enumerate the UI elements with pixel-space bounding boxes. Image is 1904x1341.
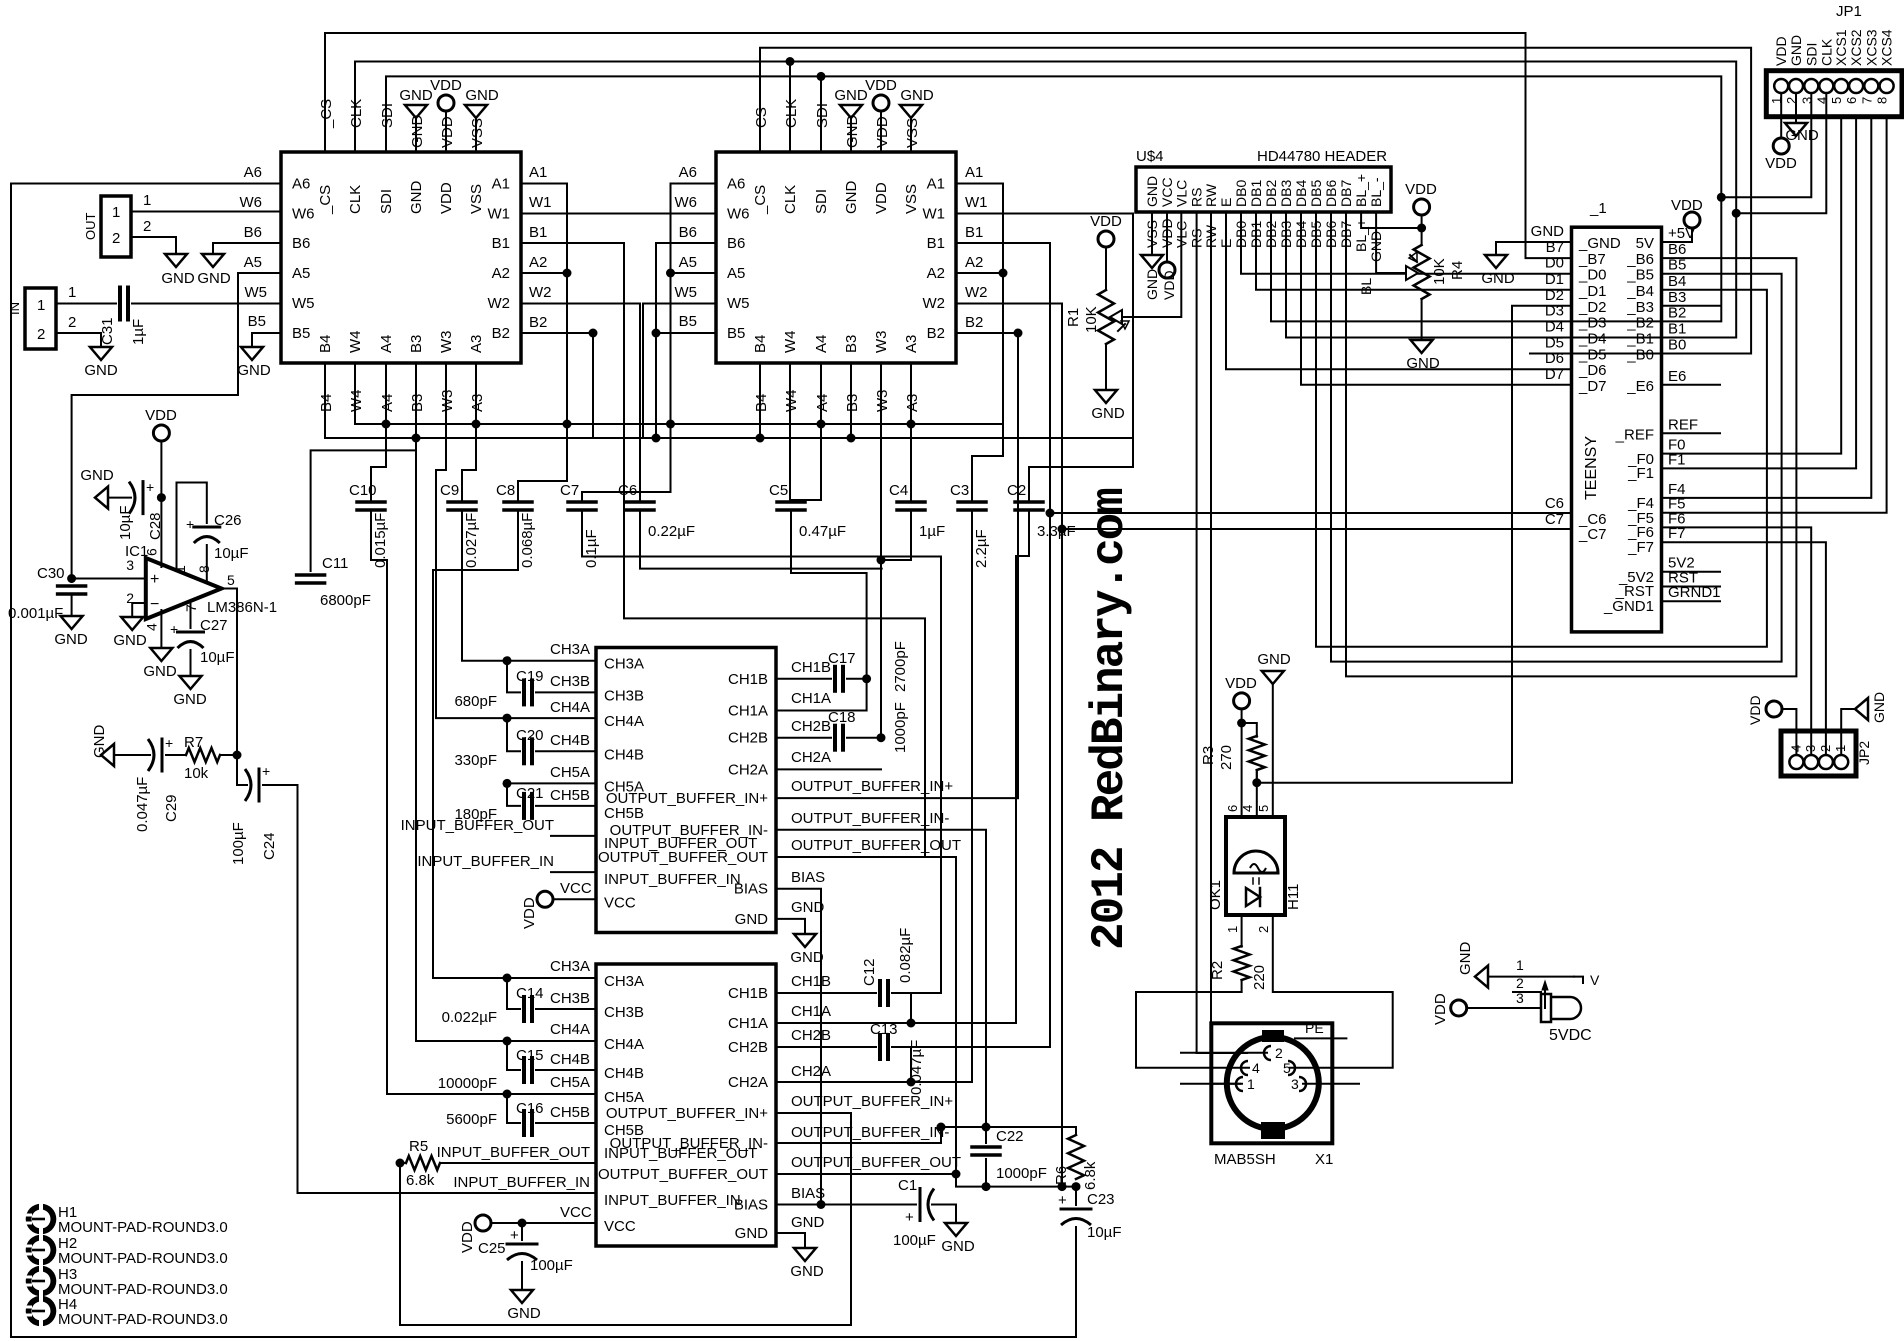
svg-text:C5: C5 [769, 482, 788, 499]
svg-text:C23: C23 [1087, 1191, 1115, 1208]
svg-text:GND: GND [843, 181, 860, 215]
ground for JP2 pin1 [1841, 709, 1854, 755]
svg-text:C4: C4 [889, 482, 908, 499]
svg-text:XCS3: XCS3 [1863, 29, 1879, 66]
wire U$4 RW down to DIN pin1 [1211, 212, 1240, 1084]
junction C17 to CH1A column [862, 674, 871, 683]
filter network block FILTER1 body [596, 648, 776, 933]
svg-text:2.2µF: 2.2µF [973, 529, 990, 568]
svg-text:C15: C15 [516, 1047, 544, 1064]
svg-text:R1: R1 [1065, 308, 1082, 327]
svg-text:CH5B: CH5B [550, 787, 590, 804]
digital potentiometer IC IC-POT2 body [716, 152, 956, 363]
svg-text:CH1B: CH1B [791, 973, 831, 990]
svg-text:1: 1 [1516, 957, 1524, 973]
svg-text:2: 2 [1516, 975, 1524, 991]
svg-text:JP2: JP2 [1856, 741, 1872, 765]
svg-text:C12: C12 [861, 958, 878, 986]
svg-text:C28: C28 [147, 512, 164, 540]
IN connector J-IN body [25, 288, 56, 349]
svg-text:270: 270 [1218, 745, 1235, 770]
svg-text:10µF: 10µF [200, 649, 235, 666]
wire W2 of IC-POT2 down to output buffer rail [957, 304, 1062, 1187]
svg-text:GND: GND [791, 899, 825, 916]
junction C25 tap [518, 1219, 527, 1228]
ground symbol R1 [1095, 390, 1117, 403]
junction A4 bus1 [382, 420, 391, 429]
svg-text:OUTPUT_BUFFER_IN-: OUTPUT_BUFFER_IN- [610, 822, 768, 839]
svg-text:LM386N-1: LM386N-1 [207, 599, 277, 616]
svg-text:10K: 10K [1431, 258, 1448, 285]
wire U$4 E down to TEENSY D6 [1226, 212, 1572, 369]
svg-text:GND: GND [790, 1263, 824, 1280]
mount pad H3 [26, 1266, 57, 1297]
svg-text:2: 2 [1256, 926, 1271, 933]
JP2 pin 4 circle [1789, 755, 1803, 769]
svg-text:BIAS: BIAS [734, 881, 768, 898]
svg-text:DB6: DB6 [1323, 180, 1339, 207]
svg-text:CH1B: CH1B [791, 659, 831, 676]
svg-text:3: 3 [126, 557, 134, 573]
svg-text:W3: W3 [438, 331, 455, 354]
svg-text:W6: W6 [727, 206, 750, 223]
svg-text:0.082µF: 0.082µF [897, 928, 914, 983]
svg-text:GND: GND [84, 362, 118, 379]
capacitor C10 [357, 500, 385, 504]
svg-text:_C7: _C7 [1578, 526, 1607, 543]
svg-text:W5: W5 [292, 295, 315, 312]
wire BIAS of FILTER1 down to BIAS of FILTER2 [776, 889, 821, 1205]
wire B3 of IC-POT1 through bus2 down to CH4A of filter2 [416, 363, 507, 1041]
svg-text:A4: A4 [379, 394, 396, 412]
svg-text:SDI: SDI [814, 103, 831, 128]
svg-text:B4: B4 [317, 335, 334, 353]
svg-text:A1: A1 [492, 176, 510, 193]
svg-text:B6: B6 [244, 224, 262, 241]
capacitor C27 to ground [178, 631, 204, 634]
ground symbol C1 [945, 1223, 967, 1236]
capacitor C9 [448, 500, 476, 504]
wire TEENSY F4 up to JP1 pin7 [1662, 117, 1872, 498]
svg-text:GND: GND [408, 181, 425, 215]
capacitor C12 [878, 981, 882, 1005]
svg-text:B5: B5 [248, 313, 266, 330]
junction R7 output node [233, 751, 242, 760]
OK1 LED symbol [1246, 888, 1260, 906]
capacitor C15 bridging CH4A-CH4B of FILTER2 [507, 1041, 520, 1070]
svg-text:MOUNT-PAD-ROUND3.0: MOUNT-PAD-ROUND3.0 [58, 1281, 228, 1298]
svg-text:A4: A4 [813, 335, 830, 353]
wire op-amp - input to ground [132, 603, 146, 615]
svg-text:+: + [1058, 1192, 1067, 1209]
IC-POT1 _CS stub to bus [325, 33, 1572, 258]
banner text 2012 RedBinary.com rotated [1084, 489, 1136, 950]
resistor R3 [1242, 723, 1257, 737]
wire A6 net: IC-POT1 A6 to left edge and down to bottom rail [11, 184, 1076, 1338]
svg-text:W4: W4 [782, 331, 799, 354]
svg-text:GND: GND [1788, 35, 1804, 66]
X1 circle [1227, 1037, 1319, 1129]
svg-text:100µF: 100µF [893, 1232, 936, 1249]
svg-text:CH3B: CH3B [604, 687, 644, 704]
svg-text:B5: B5 [1668, 257, 1686, 274]
svg-text:INPUT_BUFFER_OUT: INPUT_BUFFER_OUT [401, 817, 554, 834]
svg-text:CH3A: CH3A [604, 973, 644, 990]
wire A3 of IC-POT2 to bus1 end and C4 [910, 363, 912, 502]
svg-text:6.8k: 6.8k [1082, 1161, 1099, 1190]
svg-text:CH4A: CH4A [550, 1021, 590, 1038]
svg-text:+: + [165, 735, 173, 751]
svg-text:R2: R2 [1209, 961, 1226, 980]
wire IN pin2 to ground [56, 333, 101, 345]
svg-text:B4: B4 [753, 394, 770, 412]
svg-text:CH1B: CH1B [728, 671, 768, 688]
FILTER2 CH4A junction and stub [507, 1040, 596, 1042]
5VDC barrel jack symbol [1541, 994, 1551, 1022]
ground symbol C29 left rotated [101, 744, 114, 766]
svg-text:INPUT_BUFFER_OUT: INPUT_BUFFER_OUT [437, 1144, 590, 1161]
VDD symbol for R3 [1234, 693, 1250, 709]
svg-text:GND: GND [1457, 942, 1474, 976]
svg-text:R5: R5 [409, 1138, 428, 1155]
wire U$4 VLC to R1 wiper [1122, 212, 1181, 317]
potentiometer R4 [1414, 199, 1430, 215]
wire C8 to CH3A of filter2 [433, 510, 518, 978]
svg-text:CH2B: CH2B [791, 1027, 831, 1044]
junction C18 to CH2A column [877, 733, 886, 742]
svg-text:−: − [150, 596, 159, 613]
svg-text:VDD: VDD [145, 407, 177, 424]
FILTER1 CH5A junction and stub [507, 782, 596, 784]
FILTER1 CH4A junction and stub [507, 717, 596, 719]
svg-text:_D0: _D0 [1578, 267, 1607, 284]
svg-text:6: 6 [1225, 805, 1240, 812]
svg-text:VDD: VDD [430, 77, 462, 94]
svg-text:CH5A: CH5A [604, 1089, 644, 1106]
capacitor C31 [118, 288, 122, 320]
ground symbol C25 [511, 1290, 533, 1303]
svg-text:C8: C8 [496, 482, 515, 499]
svg-text:REF: REF [1668, 416, 1698, 433]
ground symbol at IC-POT2 VSS pin [900, 105, 922, 118]
svg-text:A2: A2 [927, 265, 945, 282]
svg-text:A3: A3 [904, 394, 921, 412]
svg-text:1: 1 [37, 297, 45, 314]
mount pad H4 [26, 1296, 57, 1327]
JP1 pin 4 circle [1819, 79, 1833, 93]
svg-text:5: 5 [227, 572, 235, 588]
svg-text:A4: A4 [378, 335, 395, 353]
svg-text:_F7: _F7 [1627, 539, 1654, 556]
junction B2 IC-POT2 [1014, 329, 1023, 338]
svg-text:CH2B: CH2B [728, 730, 768, 747]
wire C5 down to C17 junction / CH1A of filter1 [776, 510, 867, 711]
wire A1 of IC-POT2 [957, 184, 1003, 425]
wire VDD down to OK1 pin6 [1241, 709, 1243, 817]
capacitor C11 [297, 573, 325, 577]
svg-text:GND: GND [1091, 405, 1125, 422]
svg-text:0.22µF: 0.22µF [648, 523, 695, 540]
resistor R2 [1234, 946, 1250, 980]
svg-text:GND: GND [735, 911, 769, 928]
svg-text:_F1: _F1 [1627, 465, 1654, 482]
wire R5 node down to bottom rail [400, 1113, 851, 1325]
wire CH1B of FILTER2 through C12 from D2 feed [776, 992, 876, 994]
svg-text:CH3A: CH3A [604, 656, 644, 673]
svg-text:GND: GND [507, 1305, 541, 1322]
svg-text:W1: W1 [965, 194, 988, 211]
svg-text:A3: A3 [469, 394, 486, 412]
svg-text:C11: C11 [322, 555, 348, 572]
svg-text:A6: A6 [292, 176, 310, 193]
IC-POT2 GND pin stub [850, 118, 852, 152]
svg-text:1000pF: 1000pF [996, 1165, 1047, 1182]
VDD symbol for op-amp IC1 [153, 425, 169, 441]
wire JP1 pin2 to ground [1795, 93, 1797, 121]
svg-text:CH2A: CH2A [791, 749, 831, 766]
svg-text:XCS1: XCS1 [1833, 29, 1849, 66]
ground symbol U$4 GND [1141, 255, 1163, 268]
OK1 photodetector symbol [1234, 851, 1278, 873]
svg-text:MAB5SH: MAB5SH [1214, 1151, 1276, 1168]
ground symbol for 5VDC pin1 rotated [1475, 966, 1488, 988]
wire A4 of IC-POT1 to bus1 and C10 [371, 363, 386, 502]
svg-text:+5V: +5V [1668, 225, 1695, 242]
ground symbol at IC-POT1 GND pin [405, 105, 427, 118]
svg-text:VSS: VSS [468, 184, 485, 214]
svg-text:D6: D6 [1545, 350, 1564, 367]
VDD symbol feeding FILTER2 VCC [475, 1215, 491, 1231]
svg-text:10µF: 10µF [117, 506, 134, 541]
ground symbol FILTER2 [794, 1248, 816, 1261]
IC-POT1 VDD pin stub [445, 111, 447, 152]
potentiometer R1 [1098, 231, 1114, 247]
mount pad H2 [26, 1235, 57, 1266]
wire CH2B of FILTER1 through C18 [776, 737, 831, 739]
wire A5: IC-POT1 A5 down-left to op-amp + input node [72, 273, 281, 579]
svg-text:VDD: VDD [459, 1221, 476, 1253]
wire W4 of IC-POT1 to bus1 [354, 363, 356, 424]
svg-text:A3: A3 [903, 335, 920, 353]
wire OUTPUT_BUFFER_OUT of FILTER2 to bottom rail [776, 1174, 1076, 1187]
svg-text:330pF: 330pF [454, 752, 497, 769]
svg-text:B4: B4 [1668, 273, 1686, 290]
svg-text:+: + [262, 763, 270, 779]
wire B5: IC-POT1 B5 to ground [252, 333, 281, 345]
svg-text:C19: C19 [516, 668, 544, 685]
svg-text:CH5A: CH5A [550, 764, 590, 781]
svg-text:GND: GND [790, 949, 824, 966]
svg-text:_E6: _E6 [1626, 378, 1654, 395]
svg-text:VDD: VDD [1432, 993, 1449, 1025]
capacitor C26 between pins 1 and 8 [177, 483, 207, 571]
wire GND of FILTER2 to ground [776, 1233, 805, 1246]
svg-text:CH1A: CH1A [728, 1015, 768, 1032]
ground symbol op-amp pin4 [150, 648, 172, 661]
svg-text:DB2: DB2 [1263, 180, 1279, 207]
svg-text:CH4B: CH4B [604, 1065, 644, 1082]
wire TEENSY 5V to VDD symbol [1662, 228, 1692, 242]
svg-text:OUTPUT_BUFFER_IN-: OUTPUT_BUFFER_IN- [791, 810, 949, 827]
wire TEENSY F1 up to JP1 pin6 [1662, 117, 1856, 469]
ground symbol TEENSY GND [1485, 255, 1507, 268]
svg-text:A5: A5 [679, 254, 697, 271]
FILTER2 CH5A junction and stub [507, 1093, 596, 1095]
svg-text:3: 3 [1516, 990, 1524, 1006]
svg-text:IN: IN [7, 302, 22, 315]
svg-text:VCC: VCC [560, 1204, 592, 1221]
wire OK1 pin1 to R2 [1241, 915, 1243, 947]
svg-text:0.001µF: 0.001µF [8, 605, 63, 622]
VDD symbol feeding JP2 pin4 [1766, 701, 1782, 717]
junction A3 bus1 [472, 420, 481, 429]
wire A4 of IC-POT2 to bus1 and C5 elbow [791, 363, 821, 500]
svg-text:VDD: VDD [438, 182, 455, 214]
R4 wiper arrow [1406, 266, 1418, 280]
svg-text:B7: B7 [1546, 239, 1564, 256]
svg-text:+: + [905, 1209, 914, 1226]
svg-text:1000pF: 1000pF [892, 702, 909, 753]
svg-text:8: 8 [1875, 97, 1890, 104]
svg-text:CH1A: CH1A [728, 703, 768, 720]
staircase from bus1 to C8 [518, 424, 567, 502]
wire TEENSY GND to ground [1496, 242, 1572, 253]
svg-text:C29: C29 [163, 794, 180, 822]
DIN connector X1 body MAB5SH [1211, 1023, 1332, 1143]
svg-text:GND: GND [399, 87, 433, 104]
wire JP1 pin4 to CLK net [1736, 93, 1826, 213]
svg-text:CH2A: CH2A [791, 1063, 831, 1080]
svg-text:+: + [146, 479, 154, 495]
wire C2 down to CH1A of filter2 [911, 510, 1029, 1023]
svg-text:6: 6 [1844, 97, 1859, 104]
wire TEENSY F5 up to JP1 pin8 [1662, 117, 1887, 513]
svg-text:C20: C20 [516, 727, 544, 744]
svg-text:CH4A: CH4A [550, 699, 590, 716]
JP1 pin 3 circle [1804, 79, 1818, 93]
svg-text:_D2: _D2 [1578, 299, 1607, 316]
svg-text:GND: GND [844, 115, 861, 149]
svg-text:JP1: JP1 [1836, 3, 1862, 20]
svg-text:A5: A5 [727, 265, 745, 282]
wire B1 of IC-POT2 down to CH2B of filter2 [957, 243, 1050, 1047]
svg-text:PE: PE [1305, 1020, 1324, 1036]
svg-text:0.022µF: 0.022µF [442, 1009, 497, 1026]
svg-text:4: 4 [1252, 1060, 1260, 1076]
wire TEENSY F7 down to JP2 pin2 [1662, 542, 1826, 755]
capacitor C8 [504, 500, 532, 504]
svg-text:B6: B6 [679, 224, 697, 241]
wire C9 to CH3A of filter1 [462, 510, 507, 661]
svg-text:W2: W2 [488, 295, 511, 312]
wire U$4 DB2 to TEENSY D3 [1271, 212, 1572, 321]
svg-text:GND: GND [237, 362, 271, 379]
svg-text:C27: C27 [200, 617, 228, 634]
svg-text:W6: W6 [675, 194, 698, 211]
svg-text:GND: GND [465, 87, 499, 104]
svg-text:INPUT_BUFFER_IN: INPUT_BUFFER_IN [453, 1174, 590, 1191]
junction C13 bridge [910, 1047, 912, 1082]
svg-text:W3: W3 [873, 331, 890, 354]
svg-text:6: 6 [144, 548, 160, 556]
svg-text:U$4: U$4 [1136, 148, 1164, 165]
wire W3 of IC-POT1 down to CH4A of filter1 [436, 363, 507, 718]
wire B6/B5 net of IC-POT2 to bus2 [656, 243, 716, 438]
wire A5 stub IC-POT2 [671, 272, 717, 274]
svg-text:VSS: VSS [903, 184, 920, 214]
HD44780 header U$4 body [1136, 167, 1391, 212]
wire JP1 pin1 to VDD [1780, 93, 1782, 138]
svg-text:R3: R3 [1200, 746, 1217, 765]
TEENSY module body [1572, 227, 1662, 632]
svg-text:GND: GND [735, 1225, 769, 1242]
X1 bottom notch [1261, 1122, 1285, 1139]
svg-text:VDD: VDD [1773, 36, 1789, 66]
svg-text:C3: C3 [950, 482, 969, 499]
wire B3 of IC-POT2 to bus2 [850, 363, 852, 438]
capacitor C14 bridging CH3A-CH3B of FILTER2 [507, 978, 520, 1009]
wire W2: IC-POT1 W2 down to C6 [521, 304, 640, 503]
svg-text:5600pF: 5600pF [446, 1111, 497, 1128]
svg-text:INPUT_BUFFER_IN: INPUT_BUFFER_IN [604, 1192, 741, 1209]
bus wire 1 horizontal [355, 423, 1003, 425]
svg-text:0.047µF: 0.047µF [134, 777, 151, 832]
svg-text:DB7: DB7 [1338, 180, 1354, 207]
wire op-amp pin 7 to C27 [190, 601, 192, 628]
wire A6/A5 net of IC-POT2 to bus1 [671, 184, 717, 425]
svg-text:OUTPUT_BUFFER_IN-: OUTPUT_BUFFER_IN- [791, 1124, 949, 1141]
svg-text:CH2B: CH2B [728, 1039, 768, 1056]
svg-text:CS: CS [753, 107, 770, 128]
svg-text:C7: C7 [560, 482, 579, 499]
svg-text:R6: R6 [1053, 1166, 1070, 1185]
svg-text:0.47µF: 0.47µF [799, 523, 846, 540]
svg-text:1: 1 [143, 192, 151, 209]
X1 pin 3 [1303, 1083, 1359, 1085]
wire TEENSY D2 down to R3 junction [1257, 306, 1572, 783]
svg-text:CH2B: CH2B [791, 718, 831, 735]
svg-text:W6: W6 [240, 194, 263, 211]
svg-text:CLK: CLK [348, 99, 365, 128]
wire CH1A of FILTER2 to C2 column [776, 1022, 1016, 1024]
svg-text:SDI: SDI [813, 189, 830, 214]
svg-text:BL: BL [1358, 278, 1374, 295]
wire OUTPUT_BUFFER_IN- of FILTER1 to C22 column [776, 830, 986, 1127]
svg-text:OUTPUT_BUFFER_IN+: OUTPUT_BUFFER_IN+ [606, 1105, 768, 1122]
svg-text:C18: C18 [828, 709, 856, 726]
svg-text:B3: B3 [843, 335, 860, 353]
svg-text:1: 1 [172, 565, 188, 573]
capacitor C19 bridging CH3A-CH3B of FILTER1 [507, 661, 520, 693]
svg-text:3: 3 [1291, 1076, 1299, 1092]
staircase from bus1 to C7 column [582, 424, 671, 502]
capacitor C7 [568, 500, 596, 504]
svg-text:VDD: VDD [874, 116, 891, 148]
VDD symbol U$4 VCC [1159, 262, 1175, 278]
svg-text:W5: W5 [245, 284, 268, 301]
wire OUTPUT_BUFFER_OUT of FILTER1 down right column [776, 857, 956, 1174]
wire BIAS of FILTER2 through C1 to ground [776, 1204, 916, 1206]
ground symbol C30 [61, 616, 83, 629]
svg-text:GND: GND [941, 1238, 975, 1255]
IC-POT2 VDD pin stub [880, 111, 882, 152]
wire R2 to DIN pin4 loop [1136, 992, 1249, 1068]
svg-text:680pF: 680pF [454, 693, 497, 710]
svg-text:SDI: SDI [378, 189, 395, 214]
capacitor C29 [114, 754, 150, 756]
svg-text:W2: W2 [965, 284, 988, 301]
svg-text:VDD: VDD [439, 116, 456, 148]
